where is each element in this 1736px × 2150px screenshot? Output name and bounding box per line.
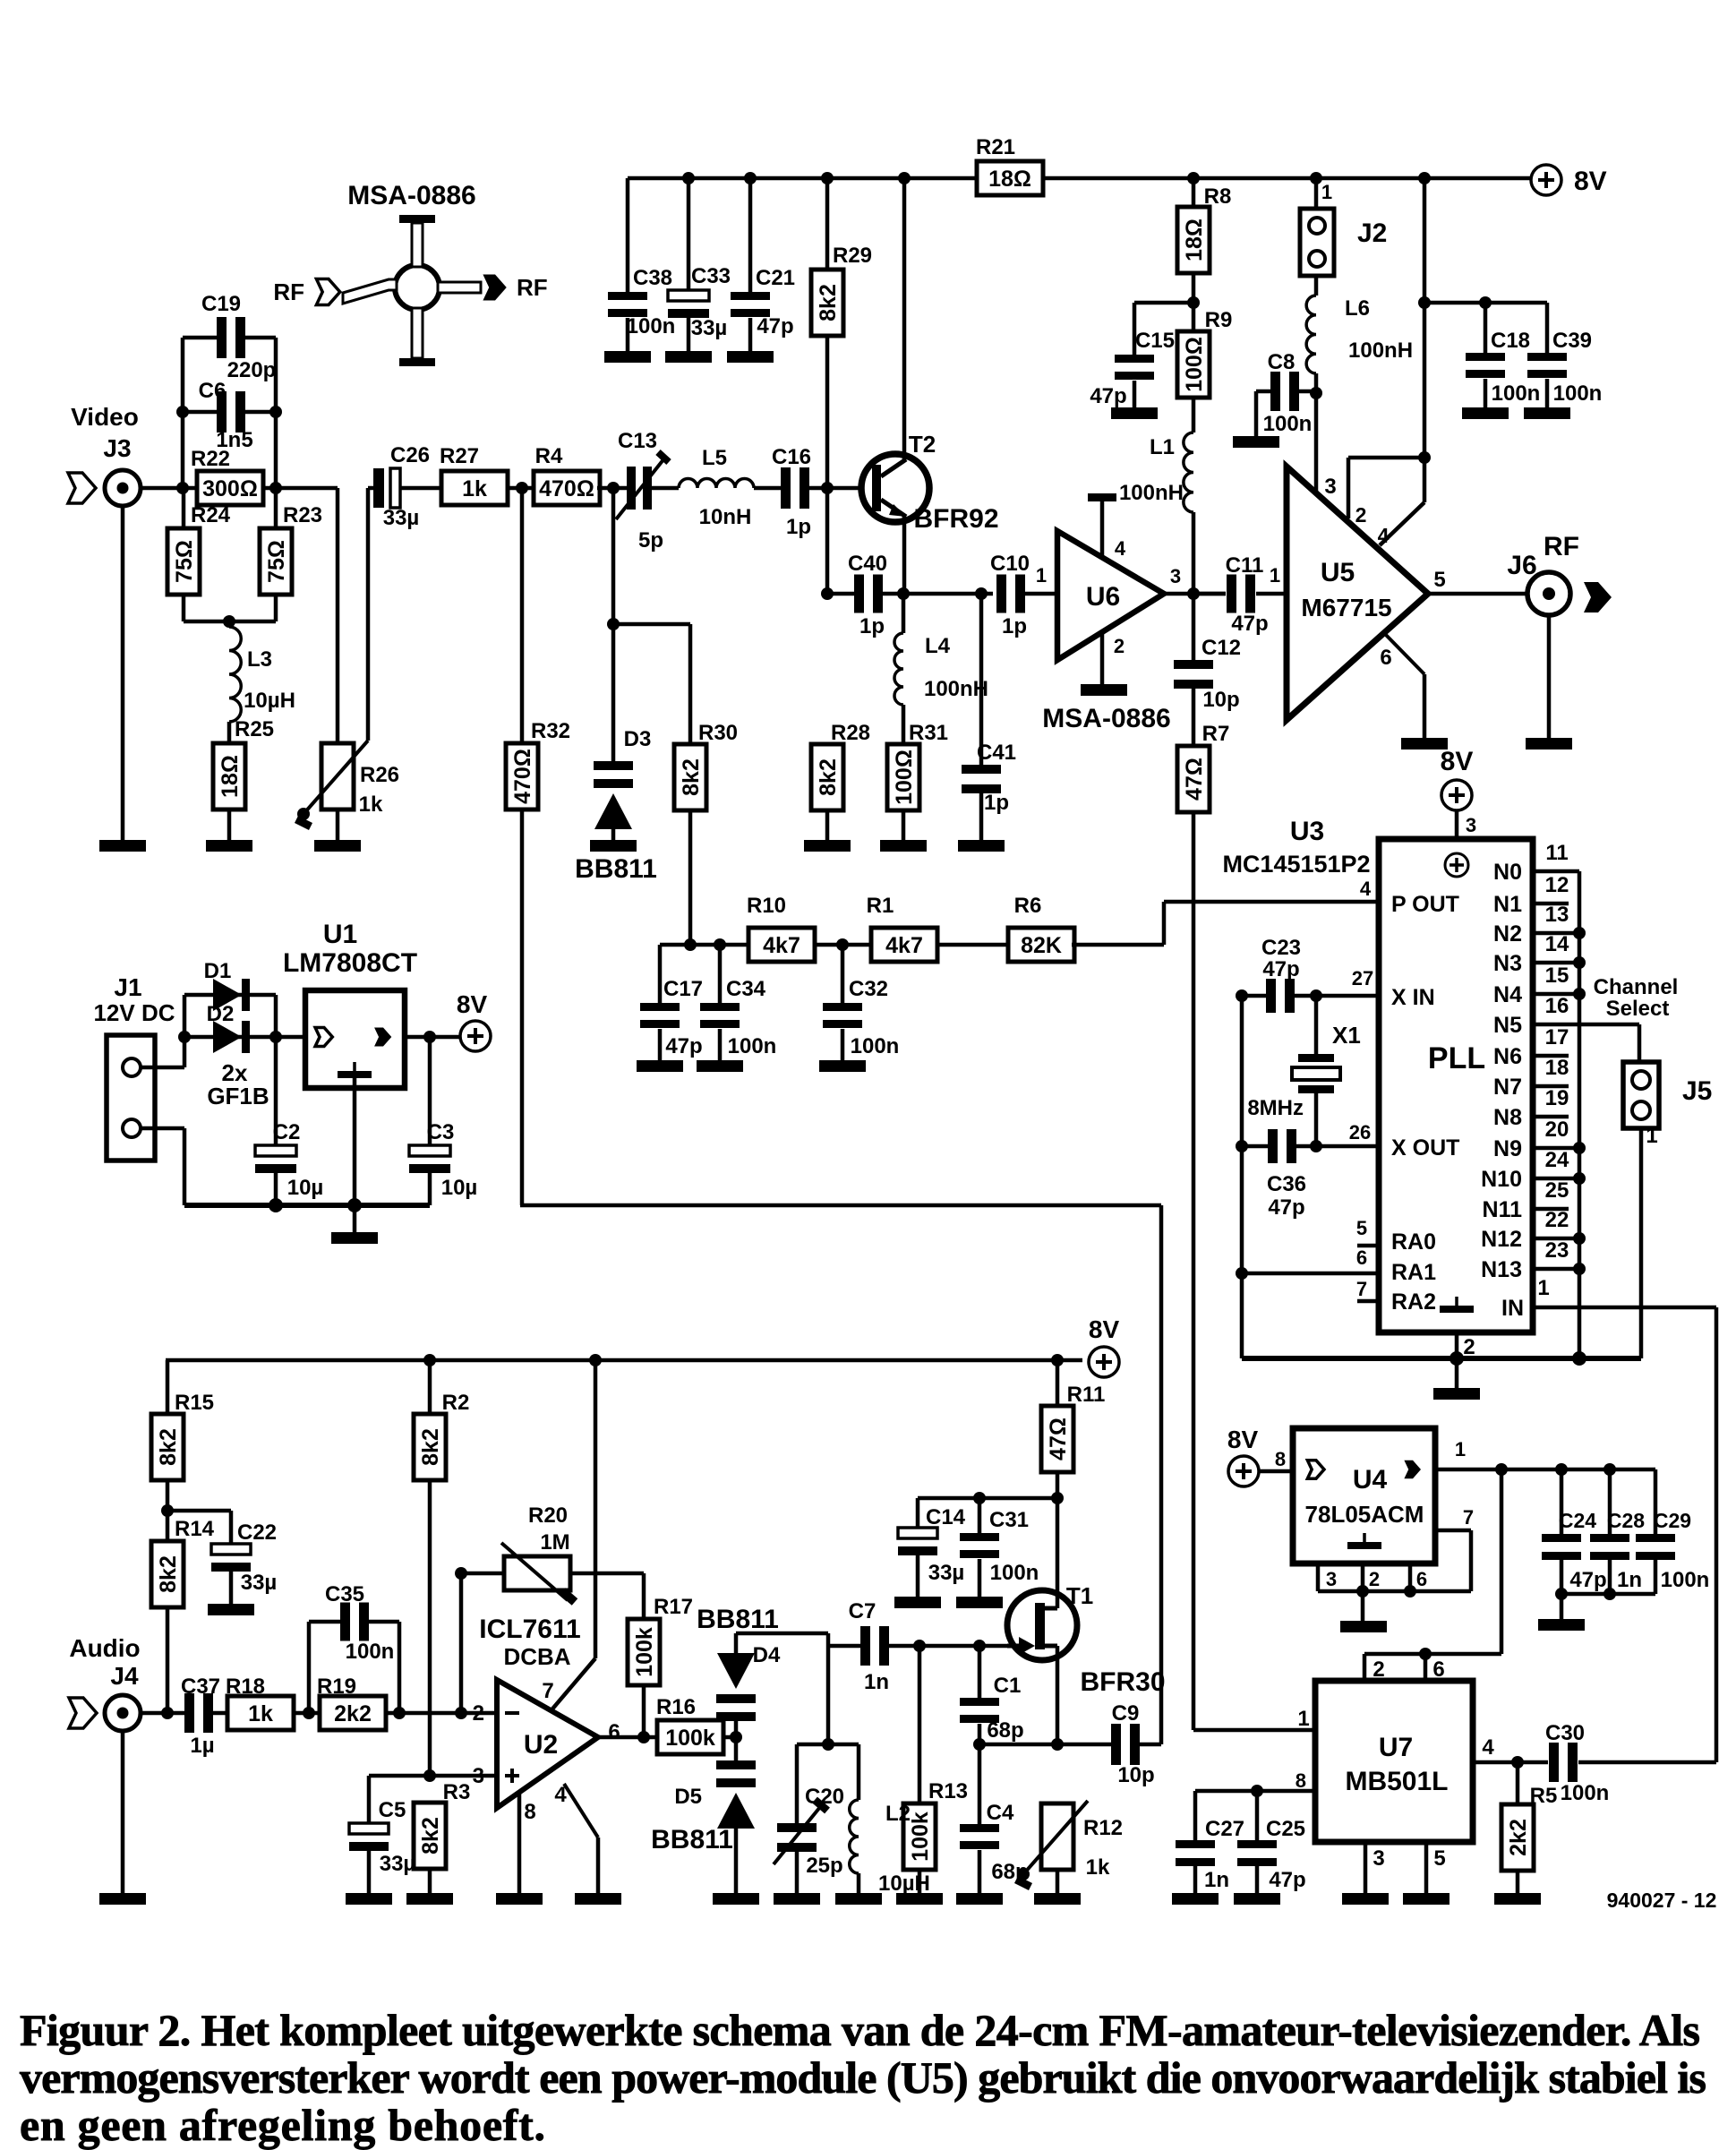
- svg-text:25p: 25p: [806, 1854, 842, 1878]
- svg-text:R29: R29: [833, 244, 872, 268]
- svg-text:U6: U6: [1086, 582, 1120, 612]
- svg-text:1p: 1p: [859, 614, 885, 638]
- svg-text:1p: 1p: [1002, 614, 1027, 638]
- svg-text:47p: 47p: [1569, 1568, 1606, 1592]
- svg-text:U7: U7: [1379, 1733, 1413, 1762]
- svg-text:1p: 1p: [786, 515, 811, 539]
- svg-text:C16: C16: [772, 445, 811, 469]
- svg-text:D4: D4: [753, 1643, 781, 1667]
- svg-text:R15: R15: [175, 1391, 214, 1415]
- svg-text:1p: 1p: [984, 791, 1009, 815]
- svg-text:C6: C6: [199, 379, 227, 403]
- svg-text:R22: R22: [191, 447, 230, 471]
- svg-text:8V: 8V: [457, 990, 488, 1018]
- svg-text:940027 - 12: 940027 - 12: [1607, 1889, 1717, 1912]
- svg-text:8: 8: [1275, 1448, 1286, 1470]
- svg-text:U2: U2: [524, 1730, 558, 1760]
- svg-text:14: 14: [1545, 932, 1569, 956]
- svg-text:R13: R13: [928, 1779, 968, 1803]
- svg-text:3: 3: [1373, 1846, 1384, 1871]
- svg-text:17: 17: [1545, 1025, 1569, 1049]
- svg-text:R2: R2: [442, 1391, 470, 1415]
- svg-text:Select: Select: [1606, 997, 1670, 1021]
- svg-text:47p: 47p: [1090, 384, 1126, 408]
- svg-text:33µ: 33µ: [380, 1852, 416, 1876]
- svg-text:10µH: 10µH: [878, 1872, 930, 1896]
- svg-text:8V: 8V: [1574, 167, 1607, 196]
- svg-text:22: 22: [1545, 1208, 1569, 1232]
- svg-text:U1: U1: [323, 920, 357, 949]
- svg-text:10µH: 10µH: [244, 689, 295, 713]
- svg-text:300Ω: 300Ω: [202, 476, 258, 501]
- svg-text:25: 25: [1545, 1178, 1569, 1203]
- svg-text:N2: N2: [1493, 921, 1522, 947]
- svg-text:J5: J5: [1682, 1076, 1712, 1106]
- svg-text:N10: N10: [1481, 1167, 1522, 1192]
- svg-text:R30: R30: [698, 721, 738, 745]
- svg-text:C1: C1: [994, 1674, 1022, 1698]
- svg-text:R4: R4: [535, 444, 563, 468]
- svg-text:J1: J1: [114, 973, 141, 1001]
- svg-text:N1: N1: [1493, 892, 1522, 917]
- svg-text:8V: 8V: [1441, 747, 1474, 776]
- svg-text:U5: U5: [1321, 558, 1355, 587]
- svg-text:C22: C22: [237, 1520, 277, 1545]
- svg-text:3: 3: [1324, 475, 1336, 499]
- svg-text:C25: C25: [1266, 1817, 1305, 1841]
- svg-text:4: 4: [1378, 524, 1390, 547]
- svg-text:1: 1: [1321, 181, 1332, 203]
- svg-text:1: 1: [1270, 564, 1280, 587]
- svg-text:16: 16: [1545, 994, 1569, 1018]
- svg-text:C13: C13: [618, 429, 657, 453]
- svg-text:2: 2: [1369, 1568, 1380, 1590]
- svg-text:D3: D3: [624, 727, 652, 751]
- svg-text:100nH: 100nH: [1348, 338, 1413, 363]
- svg-text:100k: 100k: [632, 1627, 657, 1677]
- svg-text:R3: R3: [443, 1780, 471, 1804]
- svg-text:47p: 47p: [1268, 1195, 1304, 1220]
- svg-text:MC145151P2: MC145151P2: [1222, 851, 1370, 878]
- svg-text:5p: 5p: [638, 528, 663, 552]
- svg-text:6: 6: [1416, 1568, 1427, 1590]
- svg-text:7: 7: [1463, 1506, 1474, 1529]
- svg-text:C4: C4: [987, 1801, 1014, 1825]
- svg-text:N0: N0: [1493, 860, 1522, 885]
- svg-text:RF: RF: [1544, 532, 1579, 561]
- svg-text:P OUT: P OUT: [1391, 892, 1459, 917]
- svg-text:1n: 1n: [1617, 1568, 1642, 1592]
- svg-text:13: 13: [1545, 903, 1569, 927]
- svg-text:C41: C41: [977, 741, 1016, 765]
- svg-text:R26: R26: [360, 763, 399, 787]
- svg-text:100Ω: 100Ω: [892, 750, 917, 805]
- svg-text:8k2: 8k2: [418, 1428, 443, 1466]
- svg-text:L2: L2: [885, 1802, 911, 1826]
- svg-text:12V DC: 12V DC: [93, 999, 175, 1026]
- svg-text:5: 5: [1356, 1217, 1367, 1239]
- svg-text:M67715: M67715: [1301, 594, 1391, 621]
- svg-text:ICL7611: ICL7611: [479, 1615, 580, 1644]
- svg-text:23: 23: [1545, 1238, 1569, 1263]
- svg-text:15: 15: [1545, 964, 1569, 988]
- svg-text:2: 2: [1355, 503, 1367, 527]
- svg-text:R8: R8: [1204, 184, 1232, 209]
- svg-text:2k2: 2k2: [334, 1701, 372, 1726]
- svg-text:470Ω: 470Ω: [510, 749, 535, 804]
- svg-text:47Ω: 47Ω: [1046, 1418, 1071, 1460]
- svg-text:L3: L3: [247, 647, 272, 672]
- svg-text:220p: 220p: [227, 358, 277, 382]
- svg-text:C2: C2: [273, 1120, 301, 1144]
- svg-text:100k: 100k: [665, 1726, 715, 1751]
- svg-text:N5: N5: [1493, 1013, 1522, 1038]
- svg-text:R12: R12: [1083, 1816, 1123, 1840]
- svg-text:N9: N9: [1493, 1136, 1522, 1161]
- svg-text:1: 1: [1036, 564, 1047, 587]
- svg-text:75Ω: 75Ω: [264, 540, 289, 583]
- svg-text:DCBA: DCBA: [503, 1643, 570, 1670]
- svg-text:C32: C32: [849, 977, 888, 1001]
- svg-text:C36: C36: [1267, 1172, 1306, 1196]
- svg-text:J4: J4: [110, 1662, 139, 1690]
- svg-text:Audio: Audio: [69, 1634, 140, 1662]
- svg-text:C14: C14: [926, 1505, 966, 1529]
- svg-text:5: 5: [1433, 568, 1445, 592]
- svg-text:R14: R14: [175, 1517, 215, 1541]
- svg-text:R27: R27: [440, 444, 479, 468]
- svg-text:R9: R9: [1205, 308, 1233, 332]
- svg-text:4: 4: [1482, 1735, 1494, 1760]
- svg-text:100Ω: 100Ω: [1182, 337, 1207, 392]
- svg-text:8V: 8V: [1227, 1426, 1259, 1453]
- svg-text:IN: IN: [1501, 1296, 1524, 1321]
- svg-text:T1: T1: [1066, 1582, 1093, 1609]
- svg-text:6: 6: [608, 1720, 620, 1744]
- svg-text:PLL: PLL: [1428, 1041, 1485, 1075]
- svg-text:N6: N6: [1493, 1044, 1522, 1069]
- svg-text:Video: Video: [71, 403, 139, 431]
- svg-text:1k: 1k: [359, 792, 383, 817]
- svg-text:C29: C29: [1654, 1509, 1691, 1532]
- svg-text:GF1B: GF1B: [207, 1083, 269, 1109]
- svg-text:4: 4: [1115, 537, 1126, 560]
- svg-text:R23: R23: [283, 503, 322, 527]
- svg-text:X IN: X IN: [1391, 985, 1435, 1010]
- svg-text:10nH: 10nH: [699, 505, 752, 529]
- svg-text:2: 2: [1114, 635, 1125, 657]
- svg-text:N3: N3: [1493, 951, 1522, 976]
- svg-text:en geen afregeling behoeft.: en geen afregeling behoeft.: [20, 2100, 545, 2150]
- svg-text:R17: R17: [654, 1595, 693, 1619]
- svg-text:100n: 100n: [990, 1561, 1039, 1585]
- svg-text:N13: N13: [1481, 1257, 1522, 1282]
- svg-text:33µ: 33µ: [928, 1561, 965, 1585]
- svg-text:C31: C31: [989, 1508, 1029, 1532]
- svg-text:20: 20: [1545, 1118, 1569, 1142]
- svg-text:C8: C8: [1268, 350, 1296, 374]
- svg-text:1n: 1n: [1204, 1868, 1229, 1892]
- svg-text:R6: R6: [1014, 894, 1042, 918]
- svg-text:10µ: 10µ: [441, 1176, 478, 1200]
- svg-text:R7: R7: [1202, 722, 1230, 746]
- svg-text:78L05ACM: 78L05ACM: [1305, 1501, 1424, 1528]
- svg-text:100n: 100n: [1492, 381, 1541, 406]
- svg-text:C33: C33: [691, 264, 731, 288]
- svg-text:18: 18: [1545, 1056, 1569, 1080]
- svg-text:4: 4: [1360, 878, 1372, 900]
- svg-text:100n: 100n: [728, 1034, 777, 1058]
- svg-text:R21: R21: [976, 135, 1015, 159]
- svg-text:6: 6: [1356, 1246, 1367, 1269]
- svg-text:R31: R31: [909, 721, 948, 745]
- svg-text:82K: 82K: [1021, 933, 1062, 958]
- svg-text:18Ω: 18Ω: [1182, 218, 1207, 261]
- svg-text:1n: 1n: [864, 1670, 889, 1694]
- svg-text:8MHz: 8MHz: [1247, 1096, 1304, 1120]
- svg-text:D2: D2: [207, 1002, 235, 1026]
- svg-text:C5: C5: [379, 1798, 406, 1822]
- svg-text:RA2: RA2: [1391, 1289, 1436, 1315]
- svg-text:C26: C26: [390, 443, 430, 467]
- svg-text:RA1: RA1: [1391, 1260, 1436, 1285]
- svg-text:C38: C38: [633, 266, 672, 290]
- svg-text:1k: 1k: [462, 476, 487, 501]
- svg-text:100n: 100n: [1553, 381, 1603, 406]
- svg-text:J6: J6: [1507, 551, 1536, 580]
- svg-text:8k2: 8k2: [816, 758, 841, 796]
- svg-text:47p: 47p: [1262, 957, 1299, 981]
- svg-text:C7: C7: [849, 1599, 877, 1623]
- svg-text:8: 8: [1296, 1769, 1306, 1792]
- svg-text:X OUT: X OUT: [1391, 1135, 1459, 1161]
- svg-text:D1: D1: [204, 959, 232, 983]
- svg-text:47p: 47p: [665, 1034, 702, 1058]
- svg-text:N8: N8: [1493, 1105, 1522, 1130]
- svg-text:100n: 100n: [1263, 412, 1313, 436]
- svg-text:47p: 47p: [1269, 1868, 1305, 1892]
- svg-text:10p: 10p: [1202, 688, 1239, 712]
- svg-text:C27: C27: [1205, 1817, 1244, 1841]
- svg-text:R1: R1: [867, 894, 894, 918]
- svg-text:7: 7: [1356, 1278, 1367, 1300]
- svg-text:C40: C40: [848, 552, 887, 576]
- svg-text:8k2: 8k2: [816, 284, 841, 321]
- svg-text:C17: C17: [663, 977, 703, 1001]
- svg-text:D5: D5: [674, 1785, 702, 1809]
- svg-text:C34: C34: [726, 977, 766, 1001]
- svg-text:100n: 100n: [346, 1640, 395, 1664]
- svg-text:J2: J2: [1357, 218, 1387, 248]
- svg-text:T2: T2: [909, 431, 936, 458]
- svg-text:4k7: 4k7: [763, 933, 800, 958]
- svg-text:R16: R16: [656, 1695, 696, 1719]
- svg-text:47Ω: 47Ω: [1182, 758, 1207, 801]
- svg-text:10p: 10p: [1117, 1763, 1154, 1787]
- svg-text:RA0: RA0: [1391, 1229, 1436, 1255]
- svg-text:1k: 1k: [1086, 1855, 1110, 1880]
- svg-text:C21: C21: [756, 266, 795, 290]
- svg-text:R10: R10: [747, 894, 786, 918]
- svg-text:MB501L: MB501L: [1345, 1767, 1448, 1796]
- svg-text:8: 8: [524, 1800, 535, 1824]
- svg-text:1M: 1M: [540, 1530, 569, 1555]
- svg-text:27: 27: [1352, 967, 1373, 989]
- svg-text:33µ: 33µ: [383, 506, 420, 530]
- svg-text:470Ω: 470Ω: [539, 476, 594, 501]
- svg-text:100n: 100n: [851, 1034, 900, 1058]
- svg-text:8k2: 8k2: [156, 1428, 181, 1466]
- svg-text:100k: 100k: [908, 1812, 933, 1862]
- svg-text:BFR92: BFR92: [913, 504, 998, 534]
- svg-text:N11: N11: [1483, 1197, 1523, 1222]
- svg-text:1: 1: [1297, 1707, 1309, 1731]
- svg-text:C37: C37: [181, 1675, 220, 1699]
- svg-text:R32: R32: [531, 719, 570, 743]
- svg-text:BB811: BB811: [651, 1825, 733, 1854]
- svg-text:47p: 47p: [1231, 612, 1268, 636]
- svg-text:J3: J3: [103, 434, 131, 462]
- svg-text:C30: C30: [1545, 1721, 1585, 1745]
- svg-text:BFR30: BFR30: [1080, 1667, 1165, 1697]
- svg-text:6: 6: [1380, 646, 1391, 670]
- svg-text:8k2: 8k2: [156, 1555, 181, 1593]
- svg-text:C24: C24: [1559, 1509, 1596, 1532]
- svg-text:R5: R5: [1530, 1784, 1558, 1808]
- svg-text:10µ: 10µ: [287, 1176, 324, 1200]
- svg-text:18Ω: 18Ω: [988, 167, 1031, 192]
- svg-text:C35: C35: [325, 1582, 364, 1606]
- svg-text:C12: C12: [1202, 636, 1241, 660]
- svg-text:1: 1: [1537, 1276, 1549, 1300]
- svg-text:U3: U3: [1290, 817, 1324, 846]
- svg-text:100n: 100n: [627, 314, 676, 338]
- svg-text:X1: X1: [1332, 1022, 1361, 1049]
- svg-text:12: 12: [1545, 873, 1569, 897]
- svg-text:N7: N7: [1493, 1075, 1522, 1100]
- svg-text:68p: 68p: [987, 1718, 1023, 1743]
- svg-text:4k7: 4k7: [885, 933, 923, 958]
- svg-text:C28: C28: [1607, 1509, 1645, 1532]
- svg-text:C20: C20: [805, 1785, 844, 1809]
- svg-text:N4: N4: [1493, 982, 1522, 1007]
- svg-text:C3: C3: [427, 1120, 455, 1144]
- svg-text:RF: RF: [273, 278, 304, 305]
- svg-text:100nH: 100nH: [1119, 481, 1184, 505]
- svg-text:11: 11: [1545, 841, 1568, 865]
- svg-text:C19: C19: [201, 292, 241, 316]
- svg-text:100n: 100n: [1661, 1568, 1710, 1592]
- svg-text:5: 5: [1433, 1846, 1445, 1871]
- svg-text:L1: L1: [1150, 435, 1175, 459]
- svg-text:8V: 8V: [1089, 1315, 1120, 1343]
- svg-text:26: 26: [1349, 1121, 1371, 1144]
- svg-text:vermogensversterker wordt een: vermogensversterker wordt een power-modu…: [20, 2052, 1706, 2103]
- svg-text:3: 3: [1326, 1568, 1337, 1590]
- svg-text:C11: C11: [1226, 553, 1264, 578]
- svg-text:R19: R19: [317, 1675, 356, 1699]
- svg-text:8k2: 8k2: [418, 1817, 443, 1854]
- svg-text:C23: C23: [1261, 936, 1301, 960]
- svg-text:Channel: Channel: [1594, 975, 1679, 999]
- svg-text:7: 7: [542, 1679, 553, 1703]
- svg-text:Figuur 2. Het kompleet uitgewe: Figuur 2. Het kompleet uitgewerkte schem…: [20, 2005, 1700, 2055]
- svg-text:24: 24: [1545, 1148, 1569, 1172]
- svg-text:L4: L4: [925, 634, 951, 658]
- svg-text:RF: RF: [517, 274, 548, 301]
- svg-text:1: 1: [1646, 1124, 1657, 1148]
- svg-text:C10: C10: [990, 552, 1030, 576]
- svg-text:BB811: BB811: [697, 1605, 779, 1634]
- svg-text:R18: R18: [226, 1675, 265, 1699]
- svg-text:L6: L6: [1345, 296, 1370, 321]
- svg-text:1: 1: [1455, 1438, 1466, 1460]
- svg-text:C18: C18: [1491, 329, 1530, 353]
- svg-text:R28: R28: [831, 721, 870, 745]
- svg-text:R20: R20: [528, 1503, 568, 1528]
- svg-text:LM7808CT: LM7808CT: [283, 948, 417, 978]
- svg-text:R24: R24: [191, 503, 231, 527]
- svg-text:C9: C9: [1112, 1701, 1140, 1726]
- svg-text:1k: 1k: [248, 1701, 273, 1726]
- svg-text:3: 3: [1466, 814, 1476, 836]
- svg-text:C15: C15: [1135, 329, 1175, 353]
- svg-text:U4: U4: [1353, 1465, 1388, 1495]
- svg-text:8k2: 8k2: [679, 758, 704, 796]
- svg-text:1µ: 1µ: [190, 1734, 214, 1758]
- svg-text:33µ: 33µ: [241, 1571, 278, 1595]
- svg-text:2: 2: [1463, 1335, 1475, 1359]
- svg-text:2k2: 2k2: [1506, 1819, 1531, 1856]
- svg-text:75Ω: 75Ω: [172, 540, 197, 583]
- svg-text:2: 2: [473, 1701, 484, 1726]
- svg-text:L5: L5: [702, 446, 727, 470]
- svg-text:N12: N12: [1481, 1227, 1522, 1252]
- svg-text:47p: 47p: [757, 314, 793, 338]
- svg-text:18Ω: 18Ω: [218, 755, 243, 798]
- svg-text:100nH: 100nH: [924, 677, 988, 701]
- svg-text:MSA-0886: MSA-0886: [347, 181, 475, 210]
- svg-text:19: 19: [1545, 1086, 1569, 1110]
- svg-text:3: 3: [1170, 565, 1181, 587]
- svg-text:BB811: BB811: [575, 854, 657, 884]
- svg-text:R11: R11: [1067, 1383, 1106, 1407]
- svg-text:33µ: 33µ: [691, 316, 728, 340]
- svg-text:100n: 100n: [1561, 1781, 1610, 1805]
- svg-text:C39: C39: [1552, 329, 1592, 353]
- svg-text:MSA-0886: MSA-0886: [1042, 704, 1170, 733]
- svg-text:R25: R25: [235, 717, 274, 741]
